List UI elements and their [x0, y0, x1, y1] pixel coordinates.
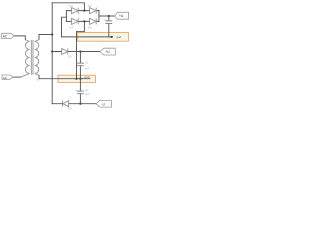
- wire AC2 vertical: [76, 32, 78, 79]
- node +U / C3: [108, 15, 110, 17]
- wire bridge right column: [98, 11, 100, 22]
- wire secondary bottom lead: [38, 75, 40, 78]
- diode D3: [72, 18, 79, 24]
- node AC2 / gnd2: [75, 78, 77, 80]
- wire gnd net bottom: [39, 78, 90, 80]
- svg-text:D4: D4: [88, 25, 92, 29]
- svg-text:D2: D2: [88, 4, 92, 8]
- wire bridge row 1: [66, 10, 99, 12]
- node C1 / gnd2: [79, 78, 81, 80]
- diode D5: [62, 49, 68, 55]
- diode D4: [90, 18, 97, 24]
- flag left top (primary input): [2, 33, 14, 38]
- node C2 / bottom row: [79, 103, 81, 105]
- diode D2: [90, 8, 97, 14]
- core: [31, 40, 33, 75]
- capacitor C1: [77, 63, 84, 66]
- junction dots: [51, 9, 113, 104]
- highlight box around gnd net (top): [78, 33, 129, 42]
- wire bridge row 2: [66, 20, 99, 22]
- diode D1: [72, 8, 79, 14]
- background: [0, 0, 130, 113]
- secondary bottom pin diagonal: [35, 74, 39, 76]
- wire secondary top lead: [39, 35, 52, 40]
- wire bottom row to D6: [52, 103, 96, 105]
- transformer Tr: [21, 40, 39, 78]
- diode D6 (pointing left): [62, 101, 68, 107]
- node gnd label attach: [110, 36, 112, 38]
- flag D5 output: [100, 48, 115, 55]
- wire left column tap to gnd: [62, 17, 67, 37]
- svg-text:Tr: Tr: [36, 78, 39, 82]
- primary bottom pin diagonal: [21, 74, 30, 78]
- svg-text:4u7: 4u7: [85, 66, 90, 70]
- svg-text:C1: C1: [85, 60, 89, 64]
- svg-text:+U: +U: [105, 50, 110, 54]
- wire row2 tap down to AC2: [77, 21, 85, 31]
- node D5 / V1: [51, 50, 53, 52]
- capacitor C3: [105, 21, 112, 24]
- highlight box around gnd net (bottom): [58, 75, 96, 82]
- svg-text:AC: AC: [3, 35, 8, 39]
- primary top pin diagonal: [25, 40, 29, 42]
- flag left bottom (primary input): [2, 75, 13, 80]
- flag -U output (bottom): [96, 100, 111, 107]
- wire D5 row: [52, 51, 100, 53]
- wire gnd net top: [62, 36, 113, 38]
- wire primary bottom lead: [13, 76, 21, 78]
- svg-text:D1: D1: [70, 4, 74, 8]
- wire right column tap to +U: [99, 15, 115, 17]
- wire C1 leads: [79, 52, 81, 79]
- svg-text:C2: C2: [85, 88, 89, 92]
- wire V1 vertical AC1: [51, 3, 53, 104]
- secondary top pin diagonal: [35, 40, 39, 42]
- svg-text:D6: D6: [69, 106, 73, 110]
- svg-text:gnd: gnd: [85, 75, 90, 79]
- svg-text:D3: D3: [70, 25, 74, 29]
- wire C3 leads: [108, 16, 110, 37]
- node row2 / AC2 tap: [83, 20, 85, 22]
- wire C2 leads: [79, 79, 81, 104]
- secondary winding: [35, 42, 39, 74]
- flag +U output: [115, 12, 129, 19]
- wire top rail AC1: [52, 3, 84, 11]
- svg-text:+U: +U: [119, 14, 124, 18]
- svg-text:4u7: 4u7: [85, 92, 90, 96]
- node sec-top / V1: [51, 33, 53, 35]
- wire primary top lead: [14, 36, 25, 40]
- svg-text:-U: -U: [101, 102, 105, 106]
- svg-text:D5: D5: [68, 55, 72, 59]
- primary winding: [26, 42, 30, 74]
- svg-text:gnd: gnd: [116, 35, 121, 39]
- node D5out / C1: [79, 50, 81, 52]
- capacitor C2: [77, 91, 84, 94]
- node row1 / top rail: [83, 9, 85, 11]
- wire bridge left column: [65, 11, 67, 22]
